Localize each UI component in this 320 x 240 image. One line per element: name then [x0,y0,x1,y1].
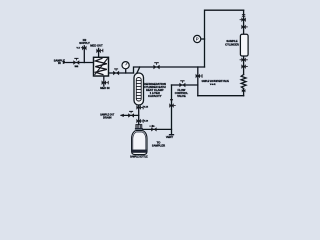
svg-text:MED OUT: MED OUT [90,43,103,47]
svg-text:V-4-R: V-4-R [210,83,216,86]
svg-text:IN: IN [58,61,61,65]
svg-text:DRAIN: DRAIN [103,115,112,119]
svg-text:SAMPLE VACUUM/VENT VALVE: SAMPLE VACUUM/VENT VALVE [202,79,229,83]
svg-text:SAMPLE: SAMPLE [226,39,237,43]
svg-text:SAMPLE BOTTLE: SAMPLE BOTTLE [130,154,148,158]
svg-text:SUPPLY: SUPPLY [79,41,90,45]
svg-text:VENT: VENT [166,135,174,139]
svg-text:MED IN: MED IN [100,86,109,90]
svg-text:SAMPLER: SAMPLER [152,143,165,147]
svg-text:CAPACITY: CAPACITY [148,94,162,98]
svg-text:CYLINDER: CYLINDER [225,42,239,46]
svg-text:VALVE: VALVE [177,94,186,98]
svg-text:P: P [196,37,199,42]
